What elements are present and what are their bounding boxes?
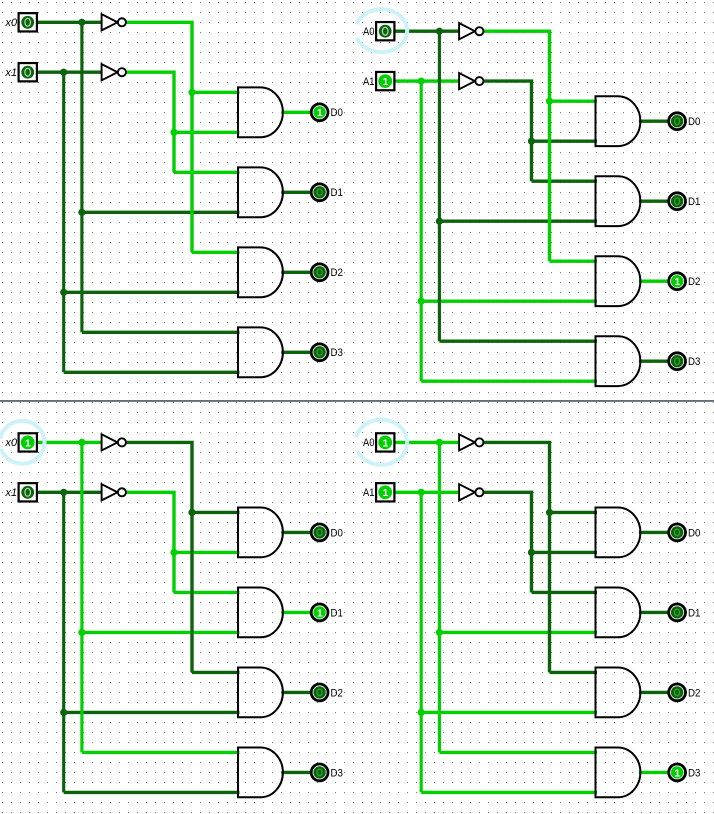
junction net A0 at input row <box>436 28 443 35</box>
wire output of AND D2 to LED <box>281 271 310 274</box>
wire net NOT-x1 inverter output down to D1 row <box>127 492 174 592</box>
inverter NOT-x0 <box>102 434 126 450</box>
wire net x0 vertical bus <box>80 22 83 332</box>
LED output D0 <box>669 524 686 541</box>
inverter NOT-x1 <box>102 64 126 80</box>
wire net A1 vertical bus <box>420 81 423 381</box>
inverter NOT-A0 <box>459 23 483 39</box>
annotation halo around pin A0 (top-right) <box>356 9 408 52</box>
wire net A1 branch to AND D2 lower input <box>421 299 597 302</box>
svg-text:D3: D3 <box>331 767 343 779</box>
and-gate D3 <box>238 327 283 377</box>
LED output D1 <box>669 193 686 210</box>
svg-text:1: 1 <box>25 437 31 449</box>
junction net NOT-x1 at D0 branch <box>170 549 177 556</box>
svg-text:D0: D0 <box>688 527 700 539</box>
junction net NOT-A0 at D0 branch <box>546 98 553 105</box>
wire output of AND D2 to LED <box>639 279 668 282</box>
wire output of AND D0 to LED <box>639 531 668 534</box>
wire net x0 branch to AND D1 lower input <box>82 631 240 634</box>
wire net x0 branch to AND D3 upper input <box>82 331 240 334</box>
wire output of AND D2 to LED <box>281 691 310 694</box>
wire net x1 branch to AND D3 lower input <box>64 371 240 374</box>
input pin x0 <box>19 433 37 451</box>
inverter NOT-x0 <box>102 14 126 30</box>
svg-text:A1: A1 <box>363 487 375 499</box>
svg-text:D2: D2 <box>331 687 343 699</box>
svg-text:1: 1 <box>317 107 323 119</box>
annotation halo around pin x0 (bottom-left) <box>0 421 45 464</box>
wire output of AND D1 to LED <box>639 199 668 202</box>
and-gate D0 <box>596 96 641 146</box>
wire output of AND D0 to LED <box>281 531 310 534</box>
wire net x1 vertical bus <box>62 492 65 792</box>
wire net NOT-x0 branch to AND D2 upper input <box>192 671 240 674</box>
wire net NOT-A0 branch to AND D2 upper input <box>550 671 598 674</box>
wire net A0 branch to AND D1 lower input <box>439 631 597 634</box>
and-gate D2 <box>596 668 641 718</box>
wire net x1 pin to inverter input <box>37 70 102 73</box>
wire output of AND D1 to LED <box>281 611 310 614</box>
wire output of AND D1 to LED <box>639 611 668 614</box>
wire net x1 vertical bus <box>62 72 65 372</box>
and-gate D0 <box>238 87 283 137</box>
junction net x0 at input row <box>78 439 85 446</box>
LED output D3 <box>311 764 328 781</box>
wire net A0 branch to AND D3 upper input <box>439 339 597 342</box>
LED output D0 <box>311 104 328 121</box>
and-gate D0 <box>596 508 641 558</box>
svg-text:D2: D2 <box>688 276 700 288</box>
junction net A1 at input row <box>418 78 425 85</box>
svg-text:A1: A1 <box>363 76 375 88</box>
svg-text:D3: D3 <box>331 347 343 359</box>
svg-text:D1: D1 <box>688 607 700 619</box>
wire net x0 vertical bus <box>80 442 83 752</box>
junction net x1 at input row <box>60 489 67 496</box>
junction net NOT-A1 at D0 branch <box>528 138 535 145</box>
separator line between screenshots <box>0 400 714 402</box>
and-gate D3 <box>238 748 283 798</box>
svg-text:D2: D2 <box>688 687 700 699</box>
wire net NOT-A1 inverter output down to D1 row <box>484 81 531 181</box>
svg-text:D1: D1 <box>331 187 343 199</box>
wire output of AND D3 to LED <box>639 771 668 774</box>
and-gate D2 <box>596 256 641 306</box>
wire net NOT-x1 branch to AND D1 upper input <box>174 591 240 594</box>
junction net NOT-x0 at D0 branch <box>188 89 195 96</box>
LED output D2 <box>669 273 686 290</box>
svg-text:1: 1 <box>382 437 388 449</box>
wire net NOT-A1 branch to AND D1 upper input <box>532 591 598 594</box>
junction net x0 at D1 branch <box>78 629 85 636</box>
wire net x1 branch to AND D2 lower input <box>64 291 240 294</box>
junction net NOT-A0 at D0 branch <box>546 509 553 516</box>
svg-text:A0: A0 <box>363 26 375 38</box>
junction net x1 at D2 branch <box>60 289 67 296</box>
LED output D3 <box>669 764 686 781</box>
wire net NOT-x1 branch to AND D1 upper input <box>174 171 240 174</box>
and-gate D1 <box>596 588 641 638</box>
svg-text:1: 1 <box>674 767 680 779</box>
wire output of AND D3 to LED <box>639 359 668 362</box>
svg-text:x1: x1 <box>5 67 17 79</box>
wire net NOT-x1 branch to AND D0 lower input <box>174 131 240 134</box>
wire output of AND D0 to LED <box>639 120 668 123</box>
svg-text:D3: D3 <box>688 767 700 779</box>
inverter NOT-x1 <box>102 484 126 500</box>
LED output D2 <box>669 684 686 701</box>
svg-text:D0: D0 <box>688 116 700 128</box>
input pin x0 <box>19 13 37 31</box>
wire net A1 branch to AND D2 lower input <box>421 711 597 714</box>
wire net NOT-A0 inverter output down to D2 row <box>484 442 549 672</box>
input pin x1 <box>19 483 37 501</box>
svg-text:A0: A0 <box>363 437 375 449</box>
junction net A0 at D1 branch <box>436 629 443 636</box>
LED output D3 <box>311 344 328 361</box>
junction net x1 at D2 branch <box>60 709 67 716</box>
LED output D3 <box>669 353 686 370</box>
wire net A1 branch to AND D3 lower input <box>421 791 597 794</box>
junction net A0 at D1 branch <box>436 218 443 225</box>
svg-text:1: 1 <box>382 487 388 499</box>
LED output D1 <box>311 604 328 621</box>
and-gate D2 <box>238 247 283 297</box>
inverter NOT-A0 <box>459 434 483 450</box>
junction net NOT-x1 at D0 branch <box>170 129 177 136</box>
and-gate D2 <box>238 668 283 718</box>
and-gate D1 <box>596 176 641 226</box>
wire net NOT-x1 inverter output down to D1 row <box>127 72 174 172</box>
junction net A1 at input row <box>418 489 425 496</box>
wire net NOT-x0 inverter output down to D2 row <box>127 22 192 252</box>
wire net NOT-A1 branch to AND D0 lower input <box>532 551 598 554</box>
input pin A0 <box>376 22 394 40</box>
wire net x1 branch to AND D3 lower input <box>64 791 240 794</box>
junction net NOT-A1 at D0 branch <box>528 549 535 556</box>
input pin A1 <box>376 483 394 501</box>
wire net NOT-A1 branch to AND D1 upper input <box>532 179 598 182</box>
svg-text:1: 1 <box>674 276 680 288</box>
wire net NOT-A0 branch to AND D0 upper input <box>550 100 598 103</box>
junction net x0 at D1 branch <box>78 209 85 216</box>
input pin x1 <box>19 63 37 81</box>
inverter NOT-A1 <box>459 73 483 89</box>
svg-text:D0: D0 <box>331 527 343 539</box>
wire net NOT-A1 inverter output down to D1 row <box>484 492 531 592</box>
wire net A0 pin to inverter input <box>394 441 459 444</box>
wire net NOT-A0 branch to AND D0 upper input <box>550 511 598 514</box>
wire net NOT-x0 branch to AND D2 upper input <box>192 251 240 254</box>
svg-text:D0: D0 <box>331 107 343 119</box>
wire net NOT-x0 branch to AND D0 upper input <box>192 91 240 94</box>
junction net A0 at input row <box>436 439 443 446</box>
and-gate D0 <box>238 508 283 558</box>
LED output D0 <box>669 113 686 130</box>
wire output of AND D3 to LED <box>281 771 310 774</box>
svg-text:x0: x0 <box>5 437 18 449</box>
and-gate D3 <box>596 336 641 386</box>
inverter NOT-A1 <box>459 484 483 500</box>
wire net A0 vertical bus <box>438 31 441 341</box>
wire net A0 pin to inverter input <box>394 29 459 32</box>
and-gate D1 <box>238 588 283 638</box>
wire net x0 pin to inverter input <box>37 441 102 444</box>
junction net A1 at D2 branch <box>418 709 425 716</box>
junction net NOT-x0 at D0 branch <box>188 509 195 516</box>
wire output of AND D0 to LED <box>281 111 310 114</box>
wire net A1 vertical bus <box>420 492 423 792</box>
wire net NOT-A0 inverter output down to D2 row <box>484 31 549 261</box>
LED output D1 <box>669 604 686 621</box>
LED output D1 <box>311 184 328 201</box>
junction net x0 at input row <box>78 19 85 26</box>
wire net A1 branch to AND D3 lower input <box>421 379 597 382</box>
wire net NOT-x0 branch to AND D0 upper input <box>192 511 240 514</box>
LED output D2 <box>311 684 328 701</box>
annotation halo around pin A0 (bottom-right) <box>356 420 408 465</box>
junction net A1 at D2 branch <box>418 298 425 305</box>
and-gate D3 <box>596 748 641 798</box>
wire net A0 vertical bus <box>438 442 441 752</box>
svg-text:x0: x0 <box>5 17 18 29</box>
wire net A0 branch to AND D1 lower input <box>439 219 597 222</box>
junction net x1 at input row <box>60 69 67 76</box>
wire net x0 branch to AND D1 lower input <box>82 211 240 214</box>
wire net A1 pin to inverter input <box>394 491 459 494</box>
wire net NOT-x0 inverter output down to D2 row <box>127 442 192 672</box>
svg-text:D1: D1 <box>688 196 700 208</box>
wire output of AND D1 to LED <box>281 191 310 194</box>
LED output D0 <box>311 524 328 541</box>
svg-text:D2: D2 <box>331 267 343 279</box>
svg-text:1: 1 <box>382 76 388 88</box>
svg-text:D3: D3 <box>688 356 700 368</box>
wire net A1 pin to inverter input <box>394 79 459 82</box>
svg-text:1: 1 <box>317 607 323 619</box>
wire net x0 pin to inverter input <box>37 21 102 24</box>
wire net A0 branch to AND D3 upper input <box>439 751 597 754</box>
wire net x1 branch to AND D2 lower input <box>64 711 240 714</box>
wire net x0 branch to AND D3 upper input <box>82 751 240 754</box>
and-gate D1 <box>238 167 283 217</box>
wire output of AND D2 to LED <box>639 691 668 694</box>
svg-text:x1: x1 <box>5 487 17 499</box>
input pin A0 <box>376 433 394 451</box>
wire output of AND D3 to LED <box>281 351 310 354</box>
input pin A1 <box>376 72 394 90</box>
wire net x1 pin to inverter input <box>37 491 102 494</box>
svg-text:D1: D1 <box>331 607 343 619</box>
LED output D2 <box>311 264 328 281</box>
wire net NOT-A0 branch to AND D2 upper input <box>550 260 598 263</box>
wire net NOT-A1 branch to AND D0 lower input <box>532 139 598 142</box>
wire net NOT-x1 branch to AND D0 lower input <box>174 551 240 554</box>
